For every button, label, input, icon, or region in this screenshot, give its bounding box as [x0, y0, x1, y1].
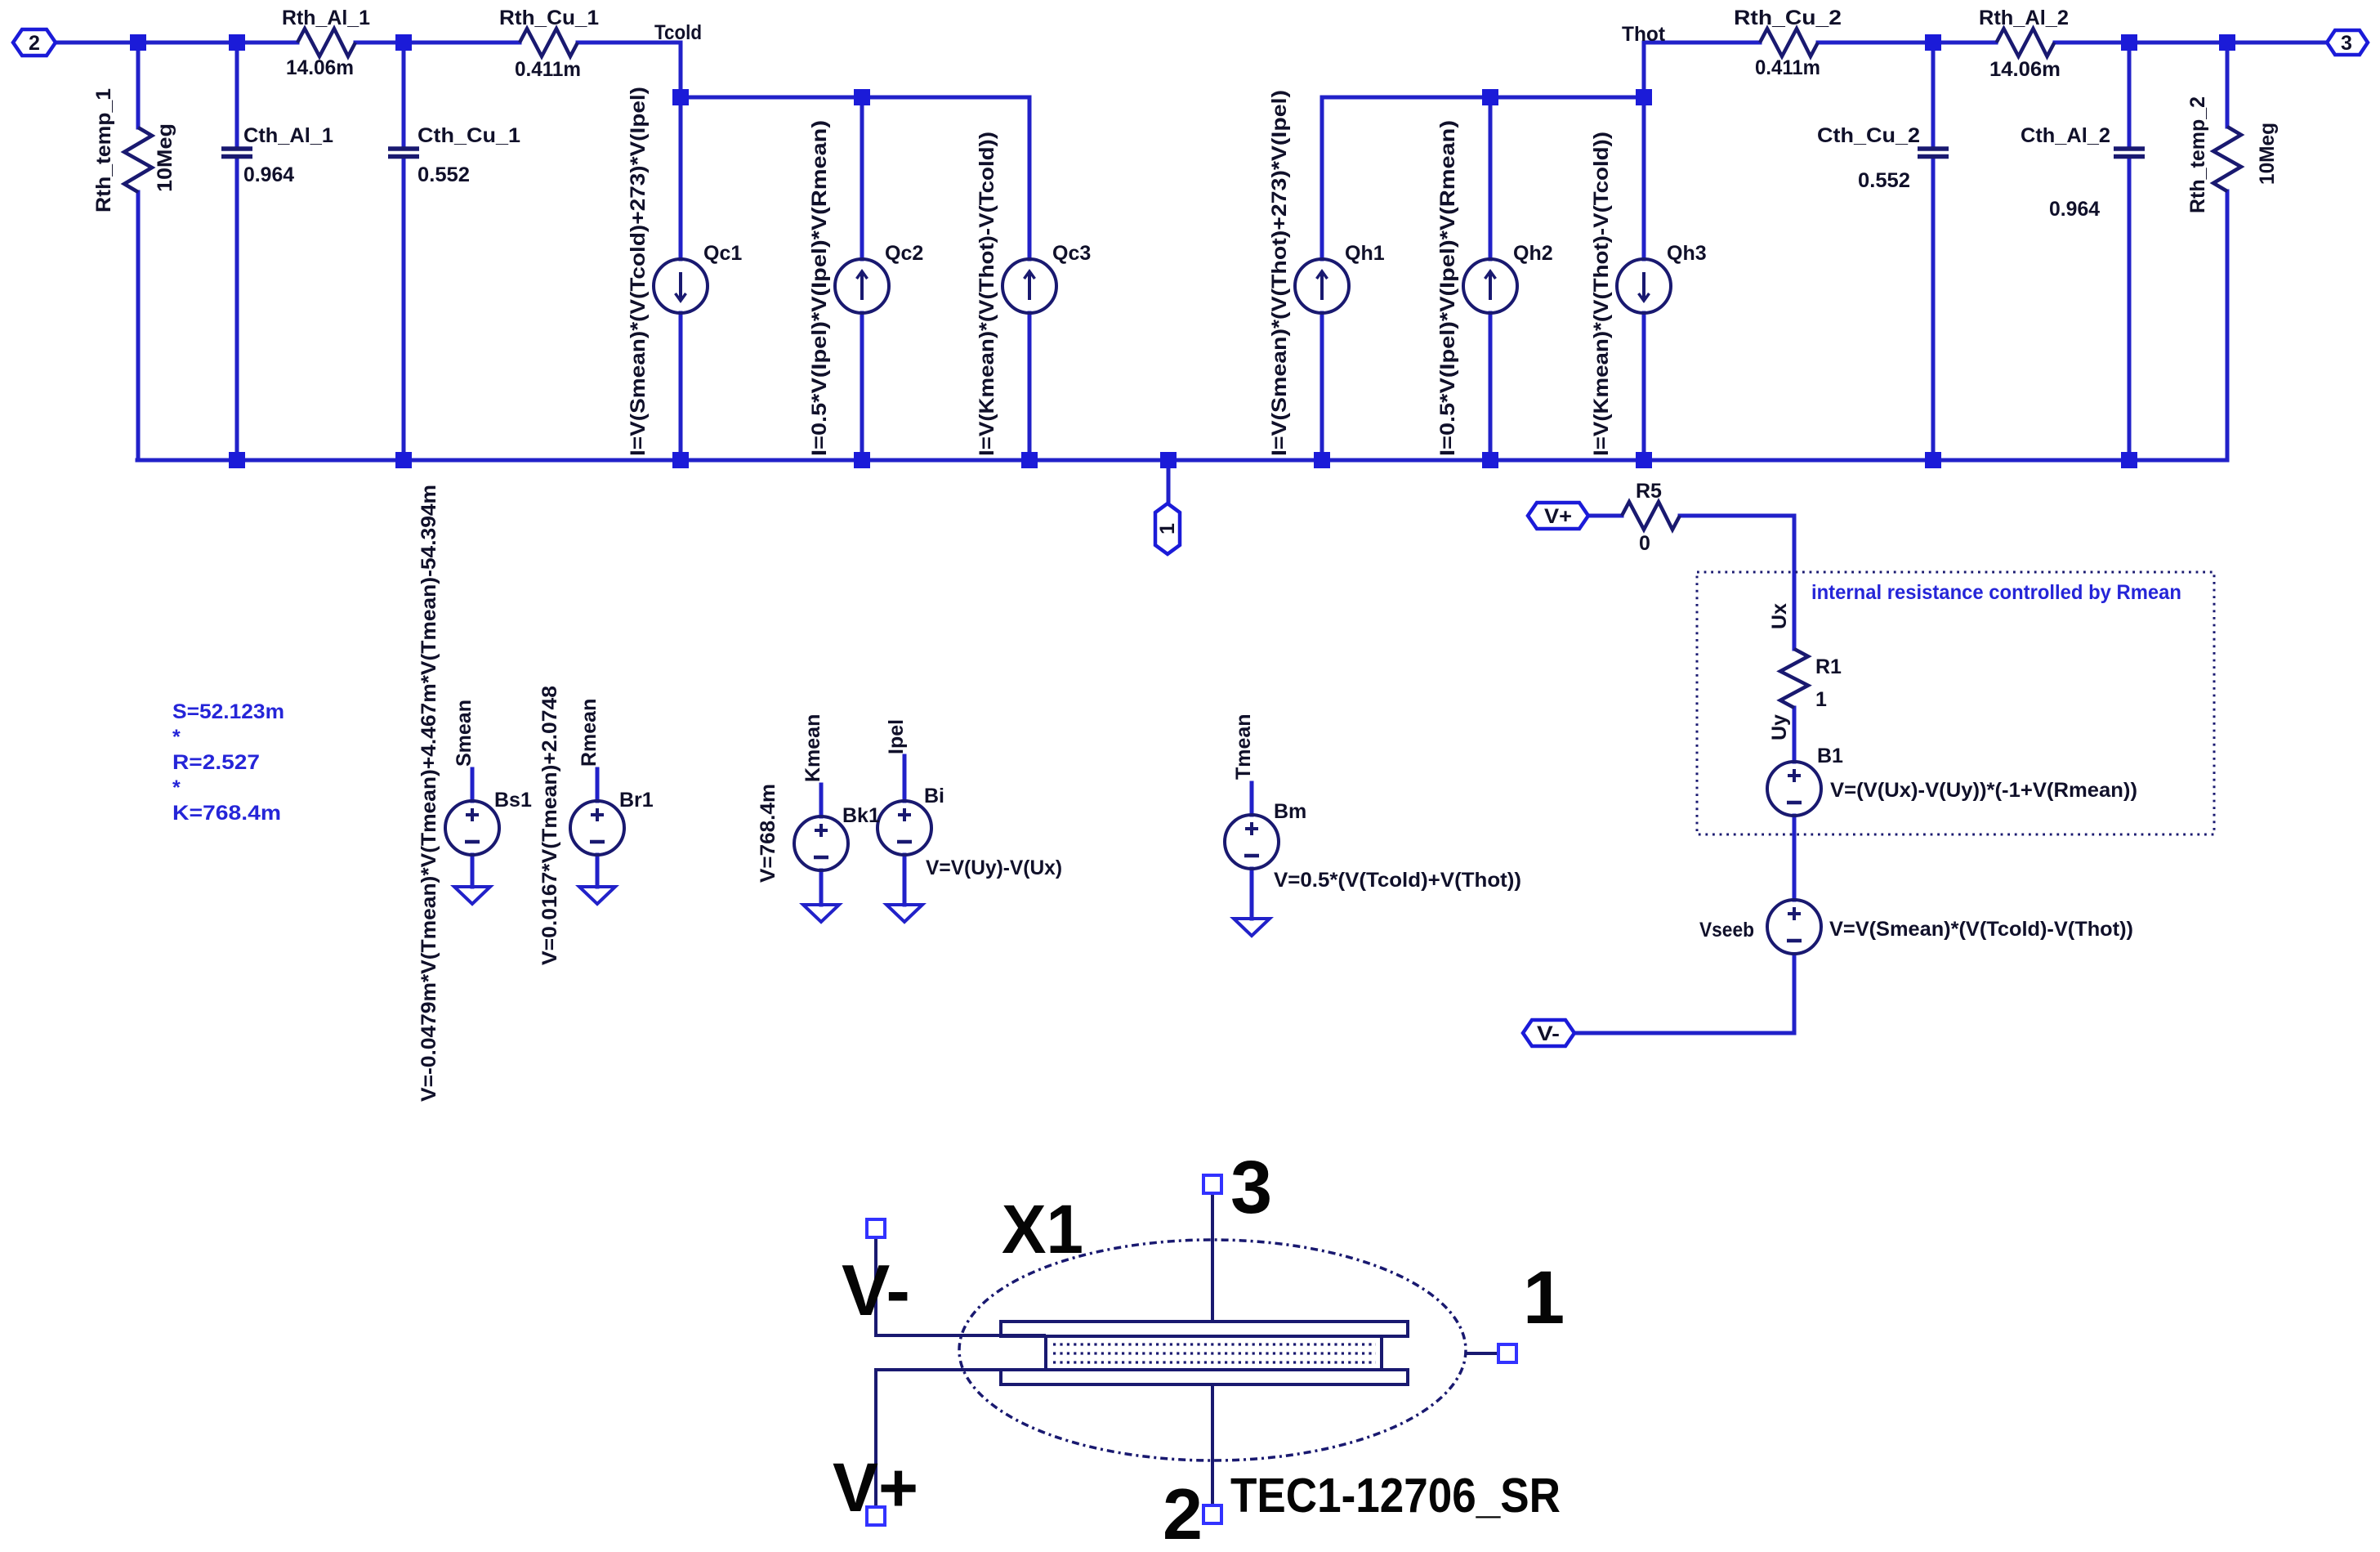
svg-text:V+: V+: [833, 1449, 918, 1526]
svg-text:Thot: Thot: [1622, 23, 1666, 46]
svg-text:Rth_Al_1: Rth_Al_1: [282, 7, 370, 29]
svg-text:Vseeb: Vseeb: [1699, 919, 1754, 941]
svg-text:Cth_Cu_1: Cth_Cu_1: [418, 124, 520, 147]
svg-text:internal resistance controlled: internal resistance controlled by Rmean: [1811, 581, 2181, 604]
svg-text:V=-0.0479m*V(Tmean)*V(Tmean)+4: V=-0.0479m*V(Tmean)*V(Tmean)+4.467m*V(Tm…: [418, 485, 440, 1102]
svg-text:Rth_Cu_2: Rth_Cu_2: [1734, 7, 1842, 29]
svg-text:14.06m: 14.06m: [1989, 58, 2061, 81]
svg-text:B1: B1: [1817, 745, 1843, 767]
svg-text:R5: R5: [1636, 480, 1662, 503]
svg-text:1: 1: [1156, 523, 1179, 534]
svg-text:0.964: 0.964: [2049, 198, 2100, 221]
svg-text:Qh3: Qh3: [1667, 242, 1707, 265]
svg-text:I=0.5*V(Ipel)*V(Ipel)*V(Rmean): I=0.5*V(Ipel)*V(Ipel)*V(Rmean): [808, 120, 831, 456]
svg-text:Bk1: Bk1: [842, 804, 880, 827]
svg-text:Cth_Cu_2: Cth_Cu_2: [1817, 124, 1920, 147]
svg-text:Uy: Uy: [1768, 714, 1791, 740]
svg-text:Bm: Bm: [1274, 800, 1306, 823]
svg-text:R=2.527: R=2.527: [172, 751, 260, 774]
svg-text:14.06m: 14.06m: [286, 56, 354, 79]
svg-text:Bs1: Bs1: [494, 789, 532, 812]
svg-text:K=768.4m: K=768.4m: [172, 802, 281, 825]
svg-text:Smean: Smean: [453, 700, 476, 767]
svg-text:0.411m: 0.411m: [1755, 56, 1820, 79]
svg-text:TEC1-12706_SR: TEC1-12706_SR: [1230, 1469, 1561, 1523]
svg-text:0.411m: 0.411m: [515, 58, 581, 81]
svg-text:I=V(Kmean)*(V(Thot)-V(Tcold)): I=V(Kmean)*(V(Thot)-V(Tcold)): [1590, 132, 1613, 456]
svg-text:Rth_temp_1: Rth_temp_1: [92, 88, 115, 212]
svg-text:V=768.4m: V=768.4m: [757, 784, 779, 883]
svg-text:V-: V-: [1537, 1022, 1560, 1045]
svg-text:Cth_Al_1: Cth_Al_1: [243, 124, 333, 147]
svg-text:2: 2: [1163, 1474, 1203, 1552]
svg-text:Ipel: Ipel: [885, 719, 908, 754]
svg-text:X1: X1: [1002, 1191, 1083, 1268]
svg-text:Qc1: Qc1: [703, 242, 742, 265]
svg-text:I=0.5*V(Ipel)*V(Ipel)*V(Rmean): I=0.5*V(Ipel)*V(Ipel)*V(Rmean): [1436, 120, 1459, 456]
svg-text:V=(V(Ux)-V(Uy))*(-1+V(Rmean)): V=(V(Ux)-V(Uy))*(-1+V(Rmean)): [1830, 779, 2137, 802]
svg-text:Rth_temp_2: Rth_temp_2: [2186, 96, 2209, 213]
svg-text:Tcold: Tcold: [654, 21, 702, 44]
svg-text:1: 1: [1815, 688, 1827, 711]
svg-text:Kmean: Kmean: [802, 714, 824, 782]
svg-text:Qc3: Qc3: [1052, 242, 1091, 265]
svg-text:0.552: 0.552: [418, 163, 470, 186]
svg-text:0.964: 0.964: [243, 163, 294, 186]
svg-text:2: 2: [29, 32, 40, 55]
svg-text:R1: R1: [1815, 655, 1842, 678]
svg-text:*: *: [172, 776, 181, 799]
svg-text:3: 3: [1230, 1146, 1272, 1229]
svg-text:3: 3: [2341, 32, 2352, 55]
svg-text:I=V(Smean)*(V(Thot)+273)*V(Ipe: I=V(Smean)*(V(Thot)+273)*V(Ipel): [1268, 90, 1291, 456]
svg-text:V=V(Smean)*(V(Tcold)-V(Thot)): V=V(Smean)*(V(Tcold)-V(Thot)): [1829, 918, 2133, 941]
svg-text:V=0.5*(V(Tcold)+V(Thot)): V=0.5*(V(Tcold)+V(Thot)): [1274, 869, 1521, 892]
svg-text:10Meg: 10Meg: [154, 123, 176, 192]
svg-text:Tmean: Tmean: [1232, 713, 1255, 780]
svg-text:V+: V+: [1544, 505, 1572, 528]
svg-text:Rmean: Rmean: [578, 699, 601, 767]
svg-text:10Meg: 10Meg: [2256, 123, 2279, 185]
svg-text:Cth_Al_2: Cth_Al_2: [2021, 124, 2110, 147]
svg-text:Qh2: Qh2: [1513, 242, 1553, 265]
svg-text:Rth_Al_2: Rth_Al_2: [1979, 7, 2069, 29]
svg-text:I=V(Kmean)*(V(Thot)-V(Tcold)): I=V(Kmean)*(V(Thot)-V(Tcold)): [976, 132, 998, 456]
svg-text:Rth_Cu_1: Rth_Cu_1: [499, 7, 599, 29]
svg-text:Br1: Br1: [619, 789, 654, 812]
svg-text:Qh1: Qh1: [1345, 242, 1385, 265]
svg-text:S=52.123m: S=52.123m: [172, 700, 284, 723]
svg-text:V=V(Uy)-V(Ux): V=V(Uy)-V(Ux): [926, 857, 1062, 879]
svg-text:V=0.0167*V(Tmean)+2.0748: V=0.0167*V(Tmean)+2.0748: [538, 686, 561, 965]
svg-text:Ux: Ux: [1768, 603, 1791, 629]
svg-text:*: *: [172, 726, 181, 749]
svg-text:Qc2: Qc2: [885, 242, 923, 265]
svg-text:V-: V-: [842, 1250, 910, 1331]
svg-text:1: 1: [1523, 1256, 1565, 1340]
svg-text:0.552: 0.552: [1858, 169, 1910, 192]
svg-text:Bi: Bi: [924, 785, 944, 807]
svg-text:I=V(Smean)*(V(Tcold)+273)*V(Ip: I=V(Smean)*(V(Tcold)+273)*V(Ipel): [627, 87, 650, 456]
svg-text:0: 0: [1639, 532, 1650, 555]
